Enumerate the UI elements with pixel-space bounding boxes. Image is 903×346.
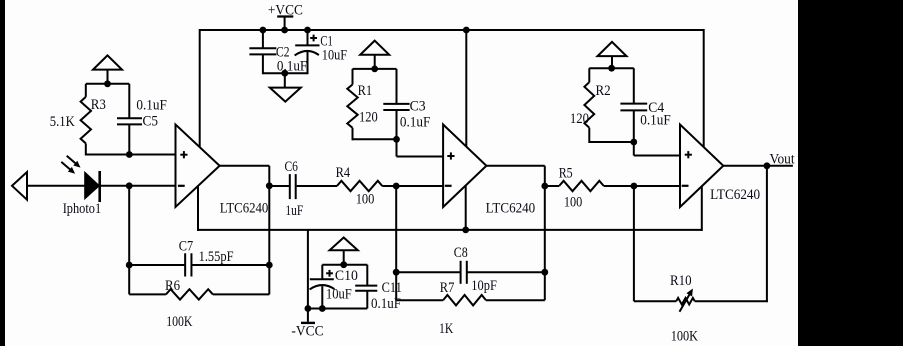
svg-text:R6: R6	[165, 278, 181, 294]
svg-text:C6: C6	[285, 159, 299, 175]
svg-text:10pF: 10pF	[471, 278, 497, 294]
svg-text:+VCC: +VCC	[268, 3, 303, 19]
svg-text:120: 120	[570, 111, 589, 127]
svg-text:C8: C8	[454, 245, 468, 261]
svg-text:R10: R10	[670, 273, 692, 289]
svg-text:R5: R5	[559, 165, 573, 181]
svg-text:C3: C3	[410, 99, 426, 115]
svg-text:Vout: Vout	[770, 151, 796, 167]
svg-text:Iphoto1: Iphoto1	[63, 201, 101, 217]
svg-text:0.1uF: 0.1uF	[277, 59, 307, 75]
svg-text:LTC6240: LTC6240	[220, 200, 269, 216]
svg-text:R2: R2	[596, 83, 611, 99]
svg-text:5.1K: 5.1K	[50, 114, 75, 130]
svg-text:C5: C5	[143, 114, 159, 130]
svg-text:R7: R7	[440, 280, 455, 296]
svg-text:C7: C7	[179, 239, 194, 255]
svg-text:100: 100	[564, 194, 582, 210]
svg-text:10uF: 10uF	[322, 48, 347, 64]
svg-text:R1: R1	[358, 83, 373, 99]
svg-text:0.1uF: 0.1uF	[400, 114, 431, 130]
svg-text:0.1uF: 0.1uF	[136, 98, 167, 114]
svg-text:-VCC: -VCC	[291, 324, 323, 340]
svg-text:R4: R4	[336, 165, 351, 181]
svg-text:C11: C11	[382, 280, 402, 296]
svg-text:R3: R3	[91, 97, 106, 113]
svg-text:LTC6240: LTC6240	[710, 187, 760, 203]
svg-text:100: 100	[356, 192, 375, 208]
svg-text:LTC6240: LTC6240	[486, 200, 536, 216]
svg-text:0.1uF: 0.1uF	[640, 113, 670, 129]
svg-text:1K: 1K	[439, 321, 453, 337]
svg-text:120: 120	[359, 110, 378, 126]
svg-text:0.1uF: 0.1uF	[371, 296, 401, 312]
svg-text:100K: 100K	[166, 314, 192, 330]
svg-text:100K: 100K	[671, 329, 699, 345]
svg-text:C10: C10	[335, 268, 358, 284]
svg-text:10uF: 10uF	[326, 286, 352, 302]
svg-text:1.55pF: 1.55pF	[199, 249, 234, 265]
svg-text:1uF: 1uF	[285, 203, 303, 219]
